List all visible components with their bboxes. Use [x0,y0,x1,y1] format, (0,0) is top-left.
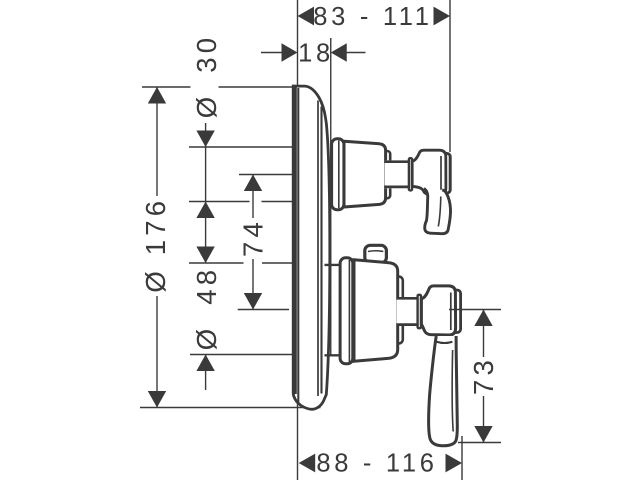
svg-text:18: 18 [298,40,334,68]
lower valve stop stub [365,245,387,263]
leader line y=309.5 lower axis left [238,309,289,311]
lower neck bottom edge [325,354,342,356]
arrowhead 73 top [474,310,492,327]
leader line y=309.5 lower axis right [449,309,501,311]
upper handle end cap [443,154,450,194]
leader line y=407.5 plate bottom [140,407,321,409]
lower stem [397,297,418,326]
arrowhead Ø48 top (points down, tip y=263) [196,247,214,264]
lower neck top edge [325,264,342,266]
dimension 88 - 116 bottom [299,450,462,478]
dimension line Ø176 x=157 [156,87,158,408]
leader line y=174.5 upper axis [239,174,293,176]
lower grip inner line [452,350,453,432]
dimension 83 - 111 top [298,3,451,31]
upper valve cone sleeve [344,141,386,207]
svg-text:83 - 111: 83 - 111 [313,3,432,31]
leader line y=201.5 [189,201,303,203]
arrowhead Ø30 top (points down, tip y=147) [196,131,214,148]
svg-text:Ø 176: Ø 176 [140,197,171,293]
lower stem flange [418,295,421,328]
dimension line 74 x=253 [252,175,254,310]
plate back inner line [297,88,299,403]
plate back edge thick [292,86,297,394]
svg-text:73: 73 [468,356,499,395]
stub cap line [368,250,383,253]
upper handle head [412,150,446,194]
svg-text:88 - 116: 88 - 116 [316,450,437,478]
lower valve flange ring [340,258,353,364]
wire extension line upper handle face x=450 [449,0,451,152]
leader line y=442.5 grip bottom [458,442,501,444]
arrowhead 74 bottom [244,293,262,310]
plate front inner line 1 [317,101,319,397]
dimension 18 [261,40,366,68]
upper handle face line [440,156,442,191]
lower flange inner line [348,260,350,362]
upper stem flange [409,158,412,190]
plate front inner line 2 [320,107,322,394]
arrowhead Ø48 bottom (points up, tip y=354.5) [196,355,214,372]
upper valve flange ring [332,139,344,210]
lower handle grip [429,336,458,446]
upper grip inner line [438,197,441,227]
svg-text:74: 74 [238,218,269,257]
upper flange inner line [338,141,340,209]
arrowhead Ø176 bottom [148,391,166,408]
lower grip rim line [437,342,453,343]
escutcheon plate outline [293,86,330,409]
upper valve collar [380,151,390,198]
lower handle end cap [452,290,460,333]
upper stem [385,160,410,188]
arrowhead 74 top [244,175,262,192]
leader line y=147 [189,146,300,148]
wire extension line wall plane x=297.5 [297,0,299,480]
svg-text:Ø 48: Ø 48 [191,266,222,350]
dimension line Ø30 / Ø48 column x=205.6 [205,123,207,390]
leader line y=87 plate top [142,86,296,88]
upper handle grip [424,189,451,234]
lower handle face line [450,293,452,331]
dimension line 73 x=483.5 [483,310,485,443]
wire extension line lower handle face x=462 [461,436,463,480]
arrowhead Ø176 top [148,87,166,104]
svg-text:Ø 30: Ø 30 [191,34,222,118]
lower valve collar [392,277,403,344]
arrowhead 73 bottom [474,426,492,443]
wire extension line 18 right x=330.75 [330,38,332,356]
arrowhead Ø30 bottom (points up, tip y=201.5) [196,202,214,219]
leader line y=354.5 [190,354,303,356]
lower handle head [421,286,455,335]
lower valve cone sleeve [354,260,398,361]
leader line y=263 [189,262,303,264]
